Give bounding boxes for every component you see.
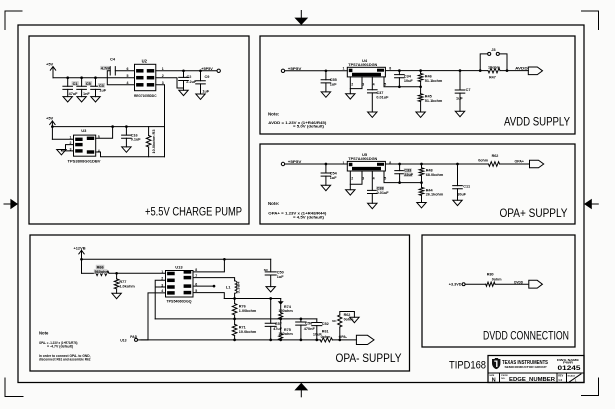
- capacitor C52 10uF: [316, 319, 318, 323]
- AVDD supply section box: [260, 36, 575, 134]
- svg-text:0.01uF: 0.01uF: [377, 191, 390, 195]
- wire U13 pin4 to output bus: [148, 293, 166, 340]
- svg-text:1uF: 1uF: [456, 97, 463, 101]
- svg-text:+5P5V: +5P5V: [288, 160, 302, 164]
- svg-text:C33: C33: [404, 169, 411, 173]
- TI logo: [492, 358, 500, 369]
- resistor R76 1.00kohm: [234, 299, 236, 304]
- svg-text:5: 5: [384, 177, 386, 181]
- svg-text:+5V: +5V: [46, 61, 54, 66]
- capacitor C54 1uF: [325, 163, 328, 166]
- capacitor C55 1uF: [325, 69, 328, 72]
- svg-text:560ohm: 560ohm: [95, 270, 110, 274]
- sheet zone arrow bottom: [300, 390, 302, 397]
- svg-text:N: N: [492, 378, 496, 384]
- charge pump U2: [135, 64, 156, 90]
- svg-text:47uF: 47uF: [69, 92, 79, 96]
- resistor R45 51.1kohm: [420, 87, 422, 94]
- wire U4 pin2 ground: [349, 77, 351, 94]
- ground under C16: [122, 147, 131, 152]
- ground under C9: [196, 94, 205, 99]
- svg-text:10uF: 10uF: [404, 79, 414, 83]
- svg-text:C50: C50: [277, 271, 284, 275]
- svg-text:1.00kohm: 1.00kohm: [239, 309, 257, 313]
- wire U2 pin2 to ground node: [156, 78, 184, 88]
- svg-text:+5.5V CHARGE PUMP: +5.5V CHARGE PUMP: [145, 207, 242, 219]
- svg-text:2: 2: [351, 83, 353, 87]
- svg-text:1: 1: [161, 270, 163, 274]
- ground under R44: [417, 203, 426, 208]
- terminal +5P5V input (AVDD): [281, 69, 284, 72]
- svg-text:R62: R62: [344, 313, 351, 317]
- svg-text:10.0kohm: 10.0kohm: [239, 330, 257, 334]
- ground under R45: [416, 112, 425, 117]
- svg-text:47uF: 47uF: [273, 327, 283, 331]
- svg-text:0ohm: 0ohm: [321, 335, 332, 339]
- ground under C37: [368, 112, 377, 117]
- svg-text:C38: C38: [377, 187, 384, 191]
- resistor R80 0ohm: [486, 282, 495, 286]
- svg-text:C54: C54: [330, 172, 338, 176]
- capacitor C3 1uF: [95, 78, 97, 87]
- wire DVDD: [465, 283, 528, 285]
- capacitor C50 1uF: [270, 259, 272, 272]
- svg-text:22uF: 22uF: [404, 173, 414, 177]
- inductor L1 3.3uH: [235, 280, 237, 298]
- converter U13: [166, 271, 194, 298]
- resistor R3 10.0kohm: [148, 127, 150, 136]
- OPA- supply section box: [30, 235, 410, 371]
- svg-text:10.0kohm R3: 10.0kohm R3: [152, 129, 156, 153]
- resistor R71 10.0kohm: [234, 319, 236, 324]
- svg-text:1uF: 1uF: [202, 90, 209, 94]
- DVDD connection section box: [422, 235, 575, 347]
- svg-text:= 4.5V (default): = 4.5V (default): [293, 214, 325, 219]
- svg-text:C56: C56: [305, 322, 312, 326]
- resistor R46 51.1kohm: [419, 69, 422, 72]
- sheet zone arrow left: [4, 203, 11, 205]
- svg-text:U2: U2: [142, 59, 148, 64]
- corner mark top-left: [5, 11, 22, 30]
- svg-text:1uF: 1uF: [277, 275, 284, 279]
- svg-text:NO.: NO.: [501, 378, 505, 380]
- wire U3 pin5 to bus: [96, 127, 113, 139]
- wire OPA- top bus: [82, 258, 271, 260]
- svg-text:51.1kohm: 51.1kohm: [425, 79, 443, 83]
- capacitor C5 1nF: [81, 78, 83, 87]
- capacitor C7 1uF: [459, 69, 462, 72]
- svg-text:1nF: 1nF: [83, 92, 90, 96]
- svg-text:TPS7A4901DGN: TPS7A4901DGN: [348, 63, 378, 67]
- capacitor C38 0.01uF: [371, 171, 373, 190]
- svg-text:R48: R48: [426, 169, 433, 173]
- resistor R62 0ohm (to GND): [339, 327, 341, 340]
- svg-text:6: 6: [127, 67, 129, 71]
- capacitor C56 470nF: [300, 319, 302, 322]
- svg-text:EDGE_NUMBER: EDGE_NUMBER: [509, 377, 556, 383]
- svg-text:C5: C5: [86, 82, 91, 86]
- wire U5 pin3 join: [350, 171, 362, 184]
- wire U13 pin8 to top bus: [193, 259, 224, 272]
- svg-text:4: 4: [127, 81, 129, 85]
- corner mark bottom-right: [582, 378, 599, 396]
- svg-text:AVDD SUPPLY: AVDD SUPPLY: [504, 117, 570, 129]
- svg-text:TPS54060DGQ: TPS54060DGQ: [167, 300, 192, 304]
- wire U13 pin7 to L1: [193, 278, 235, 281]
- svg-text:+3.3VD: +3.3VD: [449, 283, 462, 287]
- svg-text:3: 3: [362, 83, 364, 87]
- wire U3 pin1 to +5V: [52, 138, 73, 140]
- svg-text:C7: C7: [466, 88, 471, 92]
- OPA+ supply section box: [260, 144, 575, 224]
- svg-text:+5P5V: +5P5V: [201, 67, 213, 71]
- svg-text:J3: J3: [491, 47, 496, 52]
- svg-text:L1: L1: [226, 284, 231, 289]
- wire C4 to U2 pin6: [115, 70, 134, 72]
- capacitor C11 10uF: [456, 163, 459, 166]
- svg-text:5: 5: [384, 83, 386, 87]
- svg-text:R71: R71: [239, 325, 246, 329]
- ground under C5: [77, 97, 86, 102]
- svg-text:C37: C37: [376, 91, 383, 95]
- wire OPA+ output rail: [385, 163, 529, 165]
- wire C4 to U2 pin4: [107, 71, 134, 85]
- capacitor C16 0.1uF: [125, 127, 127, 136]
- svg-text:3.3uH: 3.3uH: [236, 281, 240, 293]
- svg-text:TPS7A4901DGN: TPS7A4901DGN: [348, 157, 378, 161]
- ground under C54: [321, 185, 330, 190]
- ground under C11: [453, 200, 462, 205]
- ground under C38: [368, 203, 377, 208]
- svg-text:SEMICONDUCTOR GROUP: SEMICONDUCTOR GROUP: [505, 365, 547, 369]
- svg-text:C34: C34: [404, 75, 412, 79]
- wire U5 pin5 feedback line: [384, 171, 422, 183]
- ground under C50: [266, 287, 275, 292]
- capacitor C1 47uF: [67, 78, 69, 87]
- capacitor C9 1uF: [199, 69, 202, 72]
- LDO U5 TPS7A4901: [347, 161, 385, 171]
- sheet zone arrow right: [592, 203, 599, 205]
- ground under C1: [63, 97, 72, 102]
- svg-text:Note: Note: [39, 330, 49, 335]
- resistor R62 0ohm (OPA+): [489, 162, 500, 167]
- svg-text:51.1kohm: 51.1kohm: [425, 99, 443, 103]
- svg-text:Note:: Note:: [268, 201, 280, 206]
- wire AVDD output rail: [385, 70, 528, 72]
- svg-text:U13: U13: [120, 338, 126, 342]
- svg-text:U13: U13: [175, 265, 183, 270]
- svg-text:= 5.0V (default): = 5.0V (default): [293, 124, 325, 129]
- resistor R66 560ohm: [82, 272, 97, 274]
- svg-text:REG71055DDC: REG71055DDC: [134, 94, 157, 98]
- svg-text:SCALE: SCALE: [568, 374, 576, 377]
- wire AVDD input rail: [285, 70, 348, 72]
- corner mark top-right: [582, 11, 599, 30]
- svg-text:0ohm: 0ohm: [478, 159, 489, 163]
- ground under U5 pin2: [346, 190, 355, 195]
- resistor R61 0ohm: [320, 338, 332, 342]
- svg-text:AVDD: AVDD: [515, 66, 528, 70]
- wire node A line: [224, 298, 280, 300]
- svg-text:= -4.7V (default): = -4.7V (default): [47, 343, 74, 348]
- svg-text:Note:: Note:: [268, 112, 280, 117]
- svg-text:OPA+: OPA+: [515, 160, 525, 164]
- resistor R74 150ohm: [280, 299, 282, 302]
- svg-text:R66: R66: [97, 265, 104, 269]
- svg-text:OPA-: OPA-: [339, 335, 348, 339]
- svg-text:0ohm: 0ohm: [492, 277, 503, 281]
- ground under C3: [91, 97, 100, 102]
- jumper J3: [480, 54, 507, 71]
- svg-text:DVDD CONNECTION: DVDD CONNECTION: [483, 331, 569, 343]
- capacitor C57 47uF: [270, 299, 272, 324]
- resistor R48 68.0kohm: [420, 163, 423, 166]
- svg-text:R80: R80: [487, 273, 494, 277]
- svg-text:+5P5V: +5P5V: [288, 67, 302, 71]
- svg-text:R76: R76: [239, 304, 246, 308]
- svg-text:DVDD: DVDD: [514, 280, 523, 284]
- wire U3 pins 2,3 to ground: [61, 145, 73, 151]
- svg-text:150ohm: 150ohm: [278, 309, 293, 313]
- charge pump section box: [29, 36, 249, 224]
- svg-text:disconnect R61 and assemble R6: disconnect R61 and assemble R62: [39, 356, 91, 361]
- ground under C55: [321, 92, 330, 97]
- wire U4 pin3 join: [350, 77, 362, 89]
- svg-text:1.0: 1.0: [558, 378, 562, 382]
- svg-text:68.0kohm: 68.0kohm: [426, 173, 444, 177]
- svg-text:470nF: 470nF: [304, 327, 316, 331]
- svg-text:+12VB: +12VB: [74, 245, 86, 250]
- ground under R77: [112, 293, 121, 298]
- svg-text:TIPD168: TIPD168: [449, 360, 486, 372]
- svg-text:OPA+ SUPPLY: OPA+ SUPPLY: [500, 208, 568, 220]
- ground at U3: [57, 150, 66, 155]
- LDO U4 TPS7A4901: [347, 67, 385, 77]
- ground under C7: [455, 111, 464, 116]
- svg-text:4: 4: [373, 177, 375, 181]
- svg-text:4: 4: [373, 83, 375, 87]
- wire feedback line: [155, 318, 317, 320]
- svg-text:10uF: 10uF: [457, 192, 467, 196]
- svg-text:R46: R46: [425, 74, 432, 78]
- svg-text:01245: 01245: [558, 365, 582, 372]
- svg-text:R45: R45: [425, 95, 432, 99]
- svg-text:2: 2: [351, 177, 353, 181]
- corner mark bottom-left: [5, 378, 23, 397]
- wire OPA+ input rail: [285, 163, 348, 165]
- svg-text:1.0kohm: 1.0kohm: [119, 285, 135, 289]
- svg-text:1: 1: [343, 161, 345, 165]
- svg-text:R47: R47: [489, 75, 496, 79]
- svg-text:R61: R61: [322, 330, 329, 334]
- svg-text:C11: C11: [463, 184, 470, 188]
- wire U5 pin2 ground: [349, 171, 351, 190]
- ground at R62: [350, 317, 359, 322]
- svg-text:150ohm: 150ohm: [278, 332, 293, 336]
- wire U3 pin4 bottom bus: [96, 152, 165, 157]
- svg-text:R77: R77: [119, 280, 126, 284]
- svg-text:C1: C1: [73, 82, 78, 86]
- wire U13 pins2,3 feedback: [155, 280, 165, 319]
- title block cell dividers: [500, 373, 567, 383]
- wire OPA- output bus: [141, 339, 356, 341]
- capacitor C2 2.2uF: [182, 69, 185, 72]
- svg-text:R44: R44: [426, 188, 434, 192]
- svg-text:1uF: 1uF: [330, 83, 337, 87]
- supervisor U3: [74, 135, 96, 156]
- svg-text:C52: C52: [322, 322, 329, 326]
- svg-text:26.1kohm: 26.1kohm: [426, 193, 444, 197]
- svg-text:3: 3: [362, 177, 364, 181]
- svg-text:1: 1: [343, 67, 345, 71]
- resistor R44 26.1kohm: [421, 183, 423, 188]
- wire U4 pin5 feedback line: [384, 77, 421, 87]
- wire +5V input bus: [53, 77, 135, 79]
- title block frame: [488, 356, 584, 383]
- ground under U4 pin2: [346, 94, 355, 99]
- ground under C2: [179, 90, 188, 95]
- svg-text:10ohm: 10ohm: [488, 65, 501, 69]
- svg-text:C4: C4: [110, 57, 116, 62]
- wire supervisor top bus: [52, 126, 164, 128]
- svg-text:5: 5: [127, 74, 129, 78]
- svg-text:C2: C2: [187, 75, 192, 79]
- svg-text:C3: C3: [99, 84, 104, 88]
- svg-text:R62: R62: [492, 154, 499, 158]
- svg-text:U3: U3: [81, 128, 87, 133]
- wire U2 pin3 down to supervisor: [156, 85, 165, 157]
- svg-text:0.01uF: 0.01uF: [376, 96, 389, 100]
- capacitor C33 22uF: [398, 163, 401, 166]
- svg-text:1uF: 1uF: [99, 88, 106, 92]
- wire U2 pin1 output rail: [156, 70, 217, 72]
- svg-text:TPS3808G01DBV: TPS3808G01DBV: [68, 160, 102, 164]
- capacitor C37 0.01uF: [371, 77, 373, 90]
- terminal +5P5V input (OPA+): [281, 162, 284, 165]
- wire U13 pin5 to node A: [193, 293, 224, 299]
- resistor R47 10ohm: [488, 68, 500, 73]
- svg-text:C9: C9: [205, 75, 210, 79]
- svg-text:0.1uF: 0.1uF: [131, 138, 142, 142]
- wire U13 pin6 stub: [193, 285, 213, 287]
- resistor R75 150ohm: [280, 319, 282, 334]
- resistor R77 1.0kohm: [115, 272, 118, 275]
- svg-text:C55: C55: [330, 78, 337, 82]
- sheet zone arrow top: [300, 11, 302, 19]
- svg-text:OPA- SUPPLY: OPA- SUPPLY: [336, 353, 402, 365]
- svg-text:+5V: +5V: [46, 116, 54, 121]
- svg-text:1uF: 1uF: [330, 176, 337, 180]
- capacitor C34 10uF: [398, 69, 401, 72]
